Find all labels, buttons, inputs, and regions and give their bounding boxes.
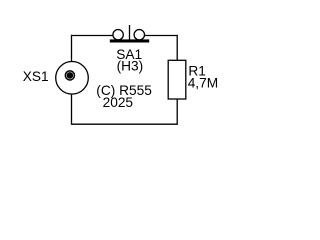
svg-text:2025: 2025 [103, 95, 134, 110]
svg-text:4,7M: 4,7M [188, 75, 218, 90]
svg-text:(H3): (H3) [117, 59, 144, 74]
svg-text:XS1: XS1 [23, 69, 49, 84]
